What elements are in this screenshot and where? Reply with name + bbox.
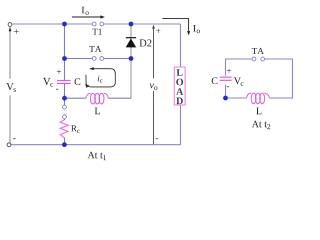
wire: bottom return rail (11, 144, 181, 146)
wire: top rail from source to top-right corner (gap at T1) (12, 23, 180, 25)
label L (main) (95, 108, 100, 115)
capacitor C sub bottom plate (220, 79, 232, 81)
diode D2 triangle (126, 38, 137, 47)
label Io (top) (82, 7, 89, 15)
label Vs (6, 83, 13, 90)
capacitor C sub top plate (220, 76, 232, 78)
wire: commutation capacitor branch vertical (64, 24, 66, 145)
voltage arrow vo head (152, 25, 155, 29)
minus: Vc negative mark (56, 88, 58, 91)
label TA (sub-circuit) (252, 48, 264, 54)
switch TA contact left (92, 57, 96, 61)
arrow: Io direction arrow top (72, 15, 105, 18)
junction: TA-right / D2 anode node (129, 56, 134, 61)
label L (sub-circuit) (256, 108, 261, 115)
wire: TA branch horizontal (gap at TA contacts) (65, 58, 132, 60)
resistor Rc zigzag (60, 120, 68, 138)
label Vs subscript (14, 88, 16, 92)
junction: TA-left node (62, 56, 67, 61)
label ic (98, 76, 100, 82)
label Rc subscript (77, 130, 80, 133)
label At t2 subscript (267, 124, 270, 129)
switch TA sub contact left (252, 57, 256, 61)
label vo subscript (154, 86, 157, 90)
wire: right rail through LOAD (180, 24, 182, 145)
switch: charging contact upper (63, 105, 67, 109)
junction: bottom rail node (62, 142, 67, 147)
switch T1 contact right (100, 22, 104, 26)
label Vc (sub-circuit) (234, 77, 241, 84)
arrow loop ic (85, 67, 115, 88)
load letter O (176, 79, 183, 86)
switch: charging contact lower (63, 115, 67, 119)
label At t1 subscript (103, 155, 106, 160)
junction: sub-circuit bottom-left node (223, 96, 228, 101)
load box (174, 67, 185, 105)
plus: sub Vc positive mark (227, 69, 231, 73)
inductor L sub coil (247, 93, 270, 104)
label C (75, 78, 81, 85)
wire: D2 vertical branch down to inductor corner (130, 24, 132, 98)
plus: source positive mark (14, 29, 19, 34)
label Vc (43, 78, 50, 85)
switch TA contact right (100, 57, 104, 61)
wire: source left vertical (gap for Vs label) (9, 27, 11, 143)
arrow: Io bent arrow right (162, 19, 190, 36)
capacitor C top plate (57, 80, 71, 82)
label At t1 (88, 152, 103, 159)
label Io (right) (193, 25, 200, 33)
terminal: top-left source terminal (8, 23, 12, 27)
junction: capacitor bottom node (62, 96, 67, 101)
wire: node-to-inductor horizontals (65, 97, 132, 99)
label vo (150, 84, 154, 89)
label TA (89, 46, 101, 52)
minus: source negative mark (13, 137, 15, 140)
label C (sub-circuit) (212, 77, 218, 84)
switch TA sub contact right (261, 57, 265, 61)
minus: vo negative mark (156, 137, 158, 140)
capacitor C bottom plate (57, 82, 71, 84)
label At t2 (252, 121, 267, 128)
switch T1 contact left (92, 22, 96, 26)
inductor L coil (86, 93, 109, 104)
label D2 (140, 39, 152, 46)
terminal: bottom-left source terminal (7, 143, 11, 147)
label Rc (71, 125, 77, 131)
minus: sub Vc negative mark (227, 85, 229, 88)
load letter L (177, 69, 183, 76)
load letter A (176, 88, 183, 95)
plus: vo positive mark (156, 29, 160, 33)
voltage arrow vo line (153, 28, 155, 144)
diode D2 cathode bar (126, 37, 136, 39)
load letter D (176, 98, 183, 105)
arrowhead: source current up arrow (9, 27, 12, 31)
label Vc subscript (50, 83, 53, 87)
junction: D2 branch top node (129, 22, 134, 27)
label ic subscript (100, 80, 102, 83)
label Vc sub subscript (241, 82, 244, 86)
label T1 (92, 29, 101, 35)
wire: sub-circuit loop (gaps at TA and C) (226, 59, 293, 98)
plus: Vc positive mark (57, 70, 61, 74)
junction: capacitor branch top node (62, 22, 67, 27)
